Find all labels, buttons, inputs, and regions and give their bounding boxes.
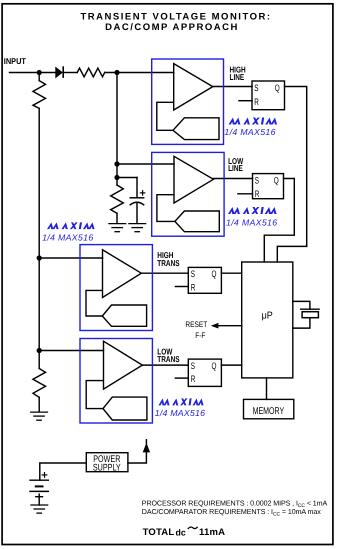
power supply right wire (128, 452, 146, 463)
svg-text:R: R (254, 96, 259, 107)
svg-text:MEMORY: MEMORY (253, 406, 285, 417)
op-amp U2 (low line comparator) (174, 156, 213, 203)
MAX516 block 2 (LOW LINE) blue box (152, 152, 224, 236)
svg-text:μP: μP (262, 311, 273, 322)
crystal X1 bottom stub (293, 318, 310, 328)
wire: FF4 R stub (175, 377, 188, 379)
wire: uP to memory (266, 378, 268, 400)
power supply box (86, 453, 128, 472)
junction node: rail2 / RC filter (114, 175, 119, 180)
wire: DAC3 to U3 feedback (86, 290, 103, 316)
wire: junction to HIGH TRANS comparator input (39, 257, 102, 259)
flip-flop FF1 (S-R) (252, 81, 285, 110)
microprocessor uP box (242, 262, 293, 378)
svg-text:S: S (254, 82, 258, 93)
svg-text:dc: dc (176, 528, 186, 538)
wire: input line (10, 72, 56, 74)
flip-flop FF2 (S-R) (253, 174, 284, 199)
svg-text:LINE: LINE (230, 72, 245, 82)
svg-text:TOTAL: TOTAL (143, 527, 175, 538)
wire: rail 1 middle (38, 108, 40, 258)
wire: DAC1 to U1 feedback (157, 102, 174, 130)
Maxim logo 1 (229, 118, 279, 125)
wire: rail 2 (116, 73, 118, 178)
svg-text:TRANS: TRANS (157, 354, 180, 364)
svg-text:1/4 MAX516: 1/4 MAX516 (224, 127, 275, 137)
wire: junction to capacitor C1 (117, 177, 137, 179)
svg-text:LINE: LINE (228, 163, 243, 173)
DAC symbol (block 4) (103, 397, 147, 420)
capacitor C1 top lead (136, 178, 138, 198)
svg-text:SUPPLY: SUPPLY (93, 463, 121, 474)
flip-flop FF4 (S-R) (188, 359, 221, 386)
wire: FF1 R stub (239, 100, 252, 102)
capacitor C1 plates (130, 197, 144, 199)
memory box (244, 399, 294, 418)
op-amp U1 (high line comparator) (174, 64, 213, 110)
svg-text:R: R (255, 188, 260, 199)
ground (below battery) (30, 505, 48, 513)
MAX516 block 1 (HIGH LINE) blue box (152, 59, 224, 144)
wire: comparator U1 output to FF1 S (213, 86, 252, 88)
svg-text:R: R (191, 373, 196, 384)
svg-text:RESET: RESET (185, 320, 207, 329)
svg-text:Q: Q (212, 268, 217, 279)
svg-text:1/4 MAX516: 1/4 MAX516 (42, 232, 93, 242)
resistor R1 (series, horizontal) (77, 68, 105, 77)
svg-text:11mA: 11mA (199, 527, 225, 538)
junction node: input/R2 (37, 70, 42, 75)
MAX516 block 4 (LOW TRANS) blue box (80, 339, 152, 424)
resistor R2 (input divider, vertical) (33, 81, 46, 109)
junction node: rail1 / high trans input (37, 255, 42, 260)
ground (below R3) (108, 224, 126, 232)
ground (below R5) (30, 412, 48, 420)
ground (below C1) (128, 224, 146, 232)
svg-text:1/4 MAX516: 1/4 MAX516 (155, 408, 205, 418)
junction node: rail1 / low trans input (37, 348, 42, 353)
wire: DAC2 to U2 feedback (157, 195, 175, 222)
flip-flop FF3 (S-R) (188, 267, 221, 293)
capacitor C1 bottom lead (136, 204, 138, 224)
plus sign (capacitor C1) (140, 190, 146, 196)
svg-text:DAC/COMP APPROACH: DAC/COMP APPROACH (105, 22, 239, 33)
power supply left wire (40, 463, 87, 480)
svg-text:S: S (255, 174, 259, 185)
DAC symbol (block 1) (173, 118, 219, 140)
Maxim logo 4 (159, 398, 205, 405)
svg-text:Q: Q (212, 360, 217, 371)
svg-text:TRANS: TRANS (157, 258, 180, 268)
svg-text:Q: Q (274, 174, 279, 185)
crystal X1 top plate (301, 308, 319, 310)
MAX516 block 3 (HIGH TRANS) blue box (80, 245, 152, 331)
wire: diode to resistor R1 (63, 72, 77, 74)
DAC symbol (block 2) (175, 211, 219, 232)
svg-text:1/4 MAX516: 1/4 MAX516 (226, 218, 277, 228)
wire: rail 1 to resistor R5 (38, 351, 40, 369)
wire: DAC4 to U4 feedback (86, 381, 103, 409)
battery to ground lead (38, 494, 40, 505)
Maxim logo 2 (228, 207, 278, 214)
Maxim logo 3 (47, 222, 96, 229)
wire: comparator U3 output to FF3 S (141, 272, 188, 274)
wire: reset line from uP (218, 325, 242, 327)
crystal X1 body (302, 312, 318, 318)
svg-text:Q: Q (275, 82, 280, 93)
junction node: R1 out / rail2 (114, 70, 119, 75)
wire: R5 to ground (38, 397, 40, 412)
DAC symbol (block 3) (102, 305, 146, 326)
wire: rail 2 to resistor R3 (116, 178, 118, 186)
svg-text:S: S (191, 360, 195, 371)
wire: rail 1 lower (38, 258, 40, 351)
svg-text:INPUT: INPUT (4, 56, 27, 66)
op-amp U3 (high transient comparator) (103, 250, 142, 298)
svg-text:F-F: F-F (195, 331, 205, 340)
diode D1 (55, 66, 63, 78)
junction node: rail2 / low line input (114, 161, 119, 166)
battery B1 plates (30, 479, 48, 481)
wire: R1 to comparator U1 input (105, 72, 174, 74)
svg-text:TRANSIENT VOLTAGE MONITOR:: TRANSIENT VOLTAGE MONITOR: (81, 11, 272, 22)
wire: FF1 Q to uP (277, 87, 306, 263)
svg-text:S: S (191, 268, 195, 279)
wire: FF2 R stub (238, 193, 253, 195)
op-amp U4 (low transient comparator) (104, 341, 143, 389)
resistor R5 (vertical, to ground) (33, 369, 46, 398)
wire: FF2 Q to uP (264, 179, 294, 263)
wire: FF3 R stub (175, 286, 188, 288)
wire: rail 1 top segment (38, 73, 40, 81)
supply arrow (up) (143, 443, 150, 453)
wire: junction to LOW TRANS comparator input (39, 350, 103, 352)
wire: FF3 Q to uP (221, 272, 241, 274)
supply arrow stem (145, 440, 147, 444)
wire: junction to LOW LINE comparator input (117, 163, 174, 165)
wire: comparator U4 output to FF4 S (142, 364, 188, 366)
crystal X1 top stub (293, 301, 310, 309)
wire: R3 to ground (116, 213, 118, 223)
reset arrow (211, 323, 219, 329)
wire: FF4 Q to uP (221, 364, 241, 366)
wire: comparator U2 output to FF2 S (213, 178, 252, 180)
plus sign (battery) (42, 472, 48, 478)
resistor R3 (filter, vertical) (111, 185, 124, 213)
svg-text:R: R (191, 282, 196, 293)
